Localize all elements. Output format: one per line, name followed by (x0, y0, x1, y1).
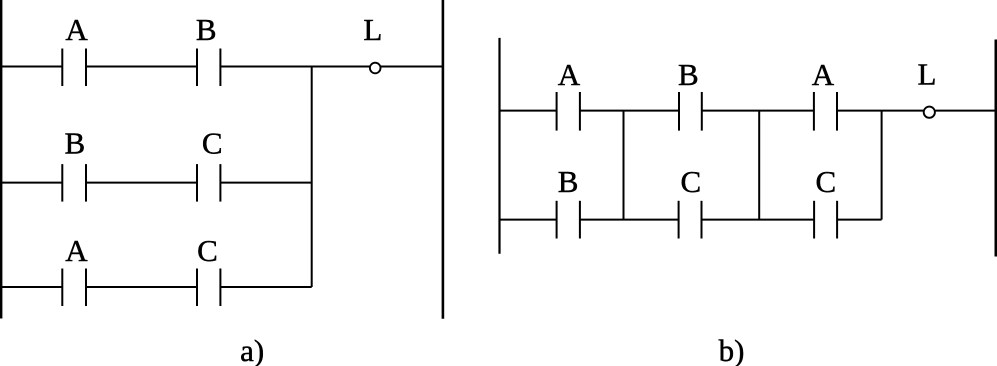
svg-text:A: A (65, 233, 88, 268)
svg-text:C: C (197, 233, 218, 268)
left power rail (b) (498, 38, 500, 254)
contact A (b, top rung, second) (814, 92, 837, 131)
junction vertical wire (a) (311, 67, 313, 288)
wire rung1 segment to coil (220, 66, 370, 68)
wire coil to right rail (a) (381, 66, 443, 68)
right power rail (a) (442, 0, 445, 319)
coil L (a) (370, 63, 381, 74)
wire bottom rung segment 2 (b) (580, 219, 679, 221)
vertical connector wire 1 (b) (623, 111, 625, 220)
contact C (b, bottom rung, second) (814, 201, 837, 239)
contact A (a, rung 1) (62, 49, 86, 87)
wire bottom rung segment 1 (b) (500, 219, 557, 221)
svg-text:C: C (202, 125, 223, 160)
svg-text:B: B (196, 12, 217, 47)
wire top rung segment to coil (b) (837, 110, 924, 112)
wire rung2 middle segment (86, 182, 197, 184)
wire top rung segment 3 (b) (702, 110, 814, 112)
wire rung3 left segment (0, 286, 62, 288)
wire rung3 right segment (220, 286, 311, 288)
vertical connector wire 2 (b) (758, 111, 760, 220)
svg-text:B: B (65, 125, 86, 160)
wire rung1 left segment (0, 66, 62, 68)
contact C (a, rung 2) (197, 164, 220, 202)
contact B (a, rung 1) (197, 49, 220, 87)
contact B (b, bottom rung) (557, 201, 580, 239)
right power rail (b) (994, 40, 997, 257)
wire rung1 middle segment (86, 66, 197, 68)
svg-text:C: C (815, 164, 836, 199)
wire bottom rung right segment (b) (837, 219, 882, 221)
vertical connector wire 3 (b) (881, 111, 883, 220)
svg-text:B: B (678, 57, 699, 92)
wire rung3 middle segment (86, 286, 197, 288)
contact B (a, rung 2) (62, 164, 86, 202)
wire rung2 right segment (220, 182, 311, 184)
svg-text:A: A (558, 57, 581, 92)
contact C (b, bottom rung, first) (679, 201, 702, 239)
contact A (a, rung 3) (62, 269, 86, 307)
wire rung2 left segment (0, 182, 62, 184)
svg-text:L: L (363, 12, 382, 47)
wire top rung segment 2 (b) (580, 110, 679, 112)
contact B (b, top rung) (679, 92, 702, 131)
svg-text:L: L (918, 57, 937, 92)
svg-text:B: B (558, 164, 579, 199)
contact A (b, top rung, first) (557, 92, 580, 131)
svg-text:A: A (65, 12, 88, 47)
svg-text:b): b) (719, 333, 745, 366)
coil L (b) (924, 107, 935, 118)
svg-text:A: A (812, 57, 835, 92)
diagram b : ladder network (500, 38, 996, 257)
wire top rung segment 1 (b) (500, 110, 557, 112)
wire coil to right rail (b) (935, 110, 995, 112)
left power rail (a) (0, 0, 2, 319)
contact C (a, rung 3) (197, 269, 220, 307)
diagram a : ladder network (0, 0, 443, 319)
svg-text:a): a) (240, 333, 264, 366)
wire bottom rung segment 3 (b) (702, 219, 815, 221)
svg-text:C: C (681, 164, 702, 199)
